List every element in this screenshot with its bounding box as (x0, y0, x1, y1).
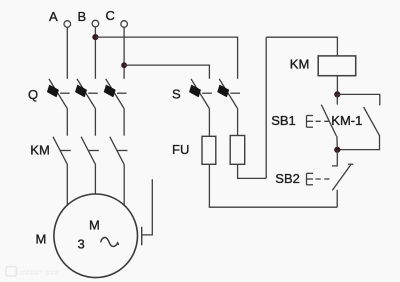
label C (106, 8, 115, 23)
start button SB2 bottom stub (336, 190, 338, 207)
wire node 1 to KM-1 branch (337, 94, 380, 105)
label KM (30, 143, 50, 158)
svg-text:M: M (36, 232, 47, 247)
start button SB2 top stub (332, 150, 337, 166)
terminal C (121, 21, 128, 28)
svg-text:M: M (89, 218, 100, 233)
junction node 1 (334, 91, 340, 97)
wire S2 to FU2 (237, 109, 239, 136)
wire phase B down (94, 27, 96, 79)
wire coil to node 1 (336, 76, 338, 95)
label Q (28, 87, 38, 102)
motor frame terminal lead (142, 179, 153, 235)
label S (172, 87, 181, 102)
svg-text:SB1: SB1 (271, 113, 296, 128)
label SB1 (271, 113, 296, 128)
auxiliary contact KM-1 (364, 107, 380, 135)
svg-text:3: 3 (78, 237, 85, 252)
wire motor lead 1 (66, 165, 68, 205)
label KM coil (290, 57, 310, 72)
wire B tap to S right pole (95, 37, 237, 79)
wire Q2 to KM2 (94, 109, 96, 136)
junction node 2 (334, 147, 340, 153)
breaker Q pole 1 (47, 79, 70, 109)
label M inside motor (89, 218, 100, 233)
label 3 phase (78, 237, 85, 252)
wire C tap to S left pole (124, 65, 209, 79)
label B (78, 9, 87, 24)
wire control top rail (266, 37, 337, 56)
wire KM-1 branch to node 2 (337, 135, 379, 150)
wire Q1 to KM1 (66, 109, 68, 136)
svg-text:Q: Q (28, 87, 38, 102)
svg-text:KM: KM (30, 143, 50, 158)
svg-text:A: A (49, 9, 58, 24)
push button actuator SB1 (307, 116, 329, 128)
terminal B (92, 20, 99, 27)
svg-text:B: B (78, 9, 87, 24)
label A (49, 9, 58, 24)
wire FU1 to bottom rail (209, 164, 337, 207)
terminal A (64, 21, 71, 28)
contactor KM main contact pole 2 (81, 137, 99, 165)
wire S1 to FU1 (208, 109, 210, 136)
svg-text:SB2: SB2 (275, 171, 300, 186)
wire motor lead 3 (123, 165, 125, 205)
fuse FU2 (230, 136, 245, 165)
label M outside motor (36, 232, 47, 247)
breaker Q pole 3 (104, 79, 127, 109)
svg-text:KM: KM (290, 57, 310, 72)
motor M circle (54, 194, 138, 278)
svg-text:KM-1: KM-1 (331, 113, 362, 128)
wire motor lead 2 (94, 165, 96, 194)
label KM-1 (331, 113, 362, 128)
wire Q3 to KM3 (123, 109, 125, 136)
contactor KM main contact pole 3 (110, 137, 128, 165)
svg-text:FU: FU (172, 142, 189, 157)
switch S pole 2 (218, 79, 241, 109)
AC wave symbol (101, 237, 119, 246)
fuse FU1 (202, 136, 216, 164)
label SB2 (275, 171, 300, 186)
junction node B (92, 34, 98, 40)
junction node C (121, 62, 127, 68)
stop button SB1 contact blade (321, 105, 336, 136)
switch S pole 1 (189, 79, 212, 109)
start button SB2 contact blade (332, 165, 350, 191)
push button actuator SB2 (307, 173, 333, 185)
wire phase C down (123, 27, 125, 79)
wire phase A down (66, 27, 68, 79)
breaker Q pole 2 (75, 79, 98, 109)
contactor coil KM (318, 56, 356, 76)
svg-text:####* ###: ####* ### (21, 268, 60, 278)
watermark logo (6, 267, 60, 278)
stop button SB1 top stub (336, 94, 338, 104)
wire FU2 to control rail (238, 164, 267, 178)
label FU (172, 142, 189, 157)
start button SB2 contact tick (348, 163, 353, 165)
motor frame terminal bar (141, 227, 143, 246)
contactor KM main contact pole 1 (53, 137, 71, 165)
svg-text:S: S (172, 87, 181, 102)
stop button SB1 bottom stub (336, 136, 338, 150)
wire control left rail (265, 37, 267, 178)
svg-text:C: C (106, 8, 115, 23)
